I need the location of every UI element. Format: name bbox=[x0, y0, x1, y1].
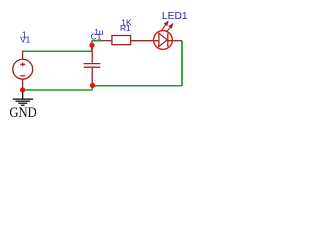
wire riser node A bbox=[91, 41, 93, 52]
capacitor C1 bbox=[84, 47, 101, 85]
svg-text:C1: C1 bbox=[91, 32, 102, 42]
wire top rail from V1 plus to node A bbox=[22, 50, 92, 52]
ground symbol bbox=[13, 92, 33, 106]
junction node B (V1 minus / ground) bbox=[20, 87, 25, 92]
junction node A (C1 top) bbox=[89, 43, 94, 48]
wire bottom rail right bbox=[92, 85, 182, 87]
wire node A to resistor R1 bbox=[92, 40, 102, 42]
junction node C (C1 bottom) bbox=[90, 83, 95, 88]
svg-text:LED1: LED1 bbox=[162, 11, 188, 22]
resistor R1 bbox=[102, 36, 154, 45]
wire LED cathode drop (right side) bbox=[181, 41, 183, 86]
svg-text:V1: V1 bbox=[20, 35, 31, 45]
wire bottom jog at node C bbox=[91, 86, 93, 90]
LED LED1 bbox=[154, 22, 183, 50]
voltage source V1 bbox=[13, 51, 33, 90]
wire bottom rail left to V1 minus bbox=[22, 89, 92, 91]
svg-text:R1: R1 bbox=[120, 23, 131, 33]
svg-text:GND: GND bbox=[9, 105, 36, 121]
